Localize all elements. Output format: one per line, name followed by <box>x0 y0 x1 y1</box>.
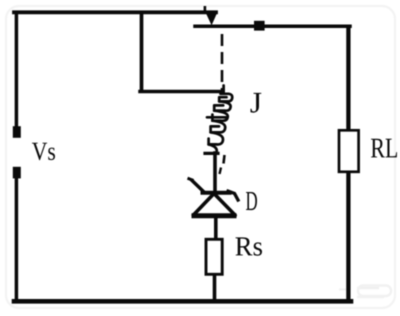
relay coil J <box>207 86 232 153</box>
wire Rs to bottom <box>213 274 217 301</box>
source terminal square lower (Vs -) <box>13 167 21 179</box>
label D <box>246 192 257 210</box>
wire top-left horizontal <box>14 10 216 14</box>
wire bottom horizontal <box>14 299 351 304</box>
wire diode to Rs <box>214 216 218 240</box>
wire coil bottom bar <box>205 152 218 155</box>
wire coil to diode <box>213 153 217 190</box>
label Rs <box>236 237 263 255</box>
mechanical linkage dashed line <box>221 34 224 91</box>
cathode bar <box>201 191 232 195</box>
relay contact (armature triangle) <box>204 6 218 25</box>
wire branch horizontal to coil <box>140 90 223 94</box>
anode triangle <box>193 194 235 216</box>
source terminal square upper (Vs +) <box>13 126 21 138</box>
left zener tail <box>191 180 206 194</box>
wire top-right horizontal (switched line) <box>195 24 350 28</box>
label RL <box>371 139 397 158</box>
wire left vertical lower <box>15 178 19 301</box>
wire branch vertical <box>140 12 144 91</box>
resistor Rs <box>206 239 222 274</box>
label Vs <box>32 143 55 160</box>
wire right vertical <box>346 24 350 302</box>
junction square on top-right wire <box>254 21 265 31</box>
resistor RL <box>339 130 359 172</box>
right zener tail <box>227 191 239 202</box>
zener diode D <box>188 178 239 216</box>
label J <box>251 93 262 113</box>
wire left vertical upper <box>15 12 19 127</box>
mechanical linkage dashes below coil <box>224 155 225 164</box>
